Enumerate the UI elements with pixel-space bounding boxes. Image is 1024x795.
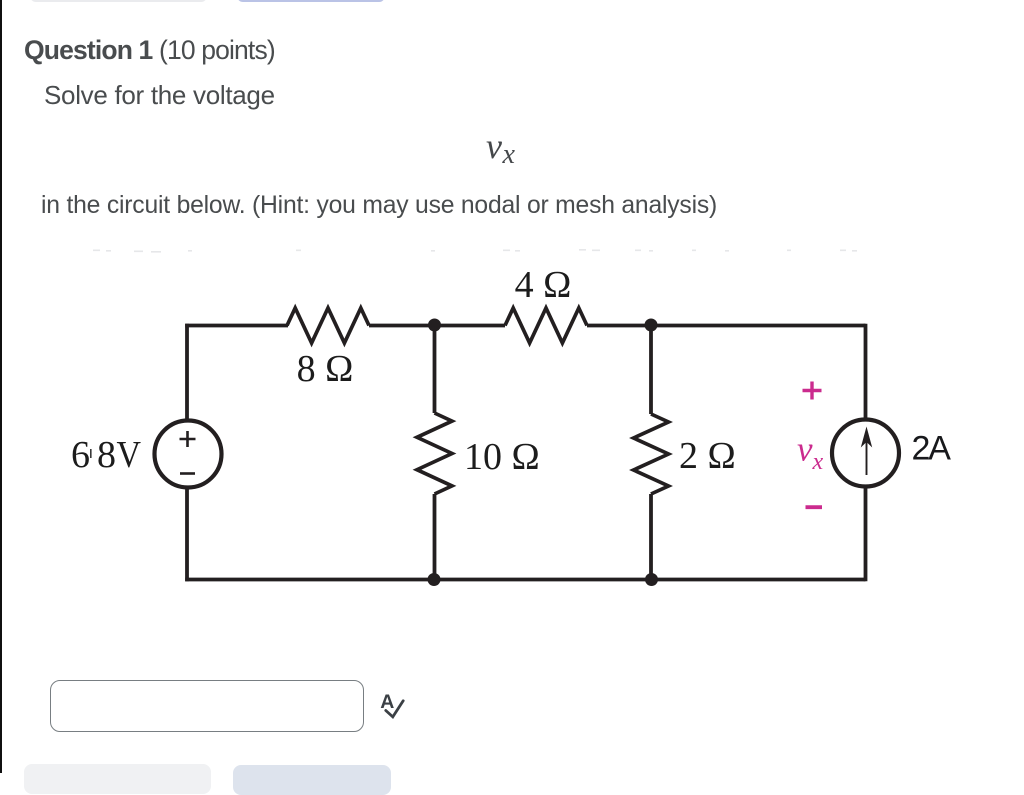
- svg-text:4 Ω: 4 Ω: [515, 264, 572, 306]
- svg-text:A: A: [380, 691, 394, 713]
- stray tick mark in 68V label: [90, 449, 92, 458]
- resistor 2ohm zigzag: [634, 414, 669, 494]
- svg-text:2A: 2A: [912, 430, 952, 468]
- wire: middle branch 2 top: [649, 326, 653, 415]
- wire: middle branch 1 top: [433, 326, 437, 414]
- current source 2A circle: [832, 420, 899, 487]
- wire: bottom rail: [185, 578, 865, 582]
- heading "Question 1 (10 points)": [24, 35, 275, 67]
- wire: right branch bottom: [864, 485, 868, 581]
- top cropped button edge (gray): [30, 0, 207, 2]
- top cropped button edge (blue): [237, 0, 385, 2]
- wire: top rail left segment: [185, 324, 288, 328]
- wire: top rail middle segment: [369, 324, 505, 328]
- wire: top rail right segment: [587, 324, 866, 328]
- current source arrow head: [861, 427, 872, 448]
- resistor 10ohm zigzag: [417, 413, 452, 494]
- svg-text:2 Ω: 2 Ω: [679, 435, 736, 477]
- svg-text:8: 8: [97, 434, 116, 476]
- math formula v_x: [486, 128, 514, 166]
- bottom cropped button (gray): [24, 764, 211, 794]
- current source arrow shaft: [866, 438, 868, 475]
- svg-text:10 Ω: 10 Ω: [464, 436, 540, 478]
- answer input box: [50, 680, 364, 732]
- svg-text:x: x: [812, 449, 824, 475]
- node dot bottom 1: [428, 573, 441, 586]
- vx plus polarity mark (magenta): [803, 382, 822, 400]
- resistor 4ohm zigzag: [505, 308, 587, 343]
- wire: middle branch 2 bottom: [649, 494, 653, 580]
- wire: right branch top: [864, 324, 868, 421]
- wire: left branch bottom: [185, 487, 189, 581]
- svg-text:6: 6: [71, 434, 90, 476]
- left page border: [0, 0, 2, 773]
- wire: middle branch 1 bottom: [433, 494, 437, 580]
- bottom cropped button (blue): [233, 765, 391, 795]
- faint cropped-text specks row: [93, 249, 857, 253]
- voltage source 68V circle: [155, 421, 222, 488]
- paragraph hint line: [41, 191, 717, 221]
- voltage source plus sign: [180, 431, 196, 447]
- vx minus polarity mark (magenta): [806, 505, 823, 509]
- spell check icon: [378, 690, 410, 722]
- svg-text:v: v: [797, 430, 813, 469]
- svg-text:V: V: [117, 434, 142, 476]
- wire: left branch top: [185, 324, 189, 421]
- paragraph "Solve for the voltage": [44, 80, 275, 111]
- voltage source minus sign: [180, 472, 195, 475]
- svg-text:8 Ω: 8 Ω: [297, 348, 354, 390]
- node dot top 1: [428, 319, 441, 332]
- node dot top 2: [645, 319, 658, 332]
- resistor 8ohm zigzag: [287, 308, 369, 343]
- node dot bottom 2: [645, 573, 658, 586]
